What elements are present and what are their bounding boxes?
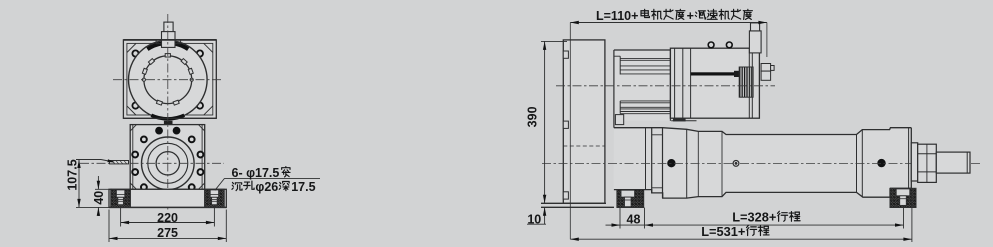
svg-text:48: 48 — [627, 213, 641, 227]
svg-text:275: 275 — [157, 226, 178, 240]
svg-text:40: 40 — [92, 191, 106, 205]
svg-text:107.5: 107.5 — [66, 159, 80, 190]
svg-text:L=110+: L=110+ — [596, 9, 638, 23]
svg-text:6- φ17.5: 6- φ17.5 — [232, 166, 280, 180]
svg-text:φ26: φ26 — [255, 180, 278, 194]
svg-text:+: + — [687, 9, 694, 23]
svg-text:220: 220 — [157, 211, 178, 225]
svg-text:390: 390 — [526, 106, 540, 127]
svg-text:L=531+: L=531+ — [701, 224, 745, 239]
svg-text:L=328+: L=328+ — [732, 210, 776, 225]
svg-text:17.5: 17.5 — [291, 180, 315, 194]
